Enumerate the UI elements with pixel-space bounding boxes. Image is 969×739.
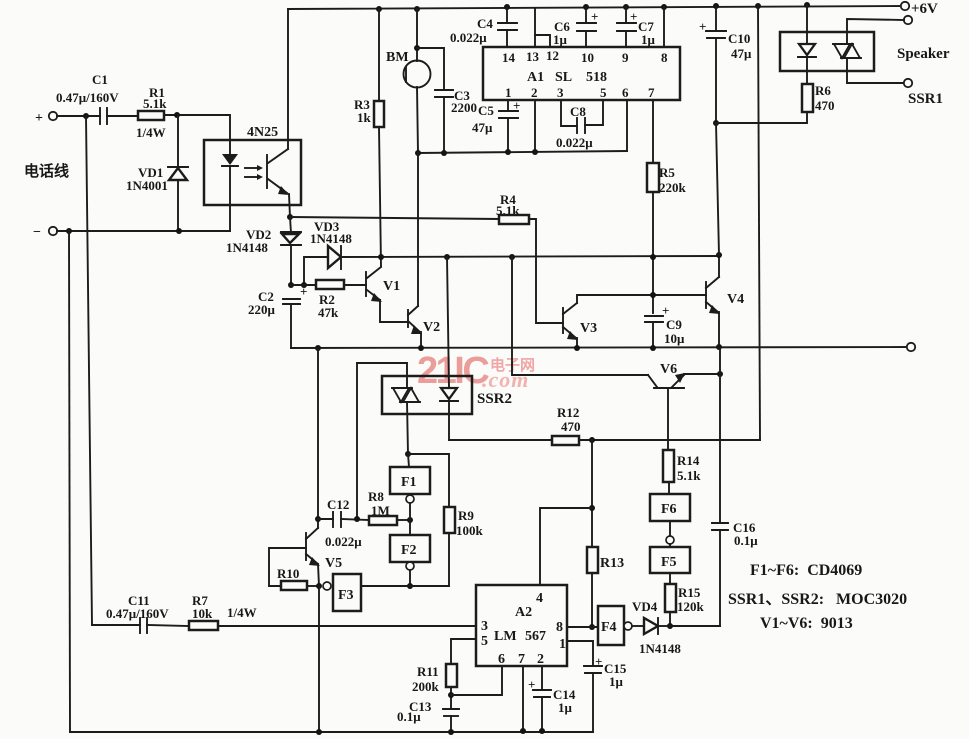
node rail C6 bbox=[583, 4, 589, 10]
node VD1 bottom bbox=[176, 228, 182, 234]
svg-text:220k: 220k bbox=[659, 180, 687, 195]
svg-text:1k: 1k bbox=[357, 110, 372, 125]
node rail V5 branch bbox=[315, 345, 321, 351]
node bottom rail C14 bbox=[539, 728, 545, 734]
svg-text:12: 12 bbox=[546, 48, 559, 63]
svg-text:5: 5 bbox=[481, 634, 488, 649]
svg-text:120k: 120k bbox=[677, 599, 705, 614]
wire SSR2 triac bottom to F1 node bbox=[407, 402, 408, 454]
svg-text:1N4148: 1N4148 bbox=[310, 231, 352, 246]
SSR1 LED bbox=[806, 5, 808, 44]
node V1 collector on VD3 line bbox=[378, 254, 384, 260]
svg-text:V6: V6 bbox=[660, 362, 677, 377]
op-amp U5 A2 LM567 box bbox=[476, 585, 567, 666]
gate F6 bbox=[650, 494, 690, 521]
gate F5 bbox=[669, 544, 671, 547]
resistor R15 120k bbox=[669, 573, 671, 584]
svg-text:5.1k: 5.1k bbox=[496, 203, 520, 218]
wire pin 6 down to mic rail bbox=[626, 100, 628, 151]
svg-text:4: 4 bbox=[536, 591, 543, 606]
svg-text:10: 10 bbox=[581, 50, 594, 65]
op-amp U1 4N25 optocoupler box bbox=[204, 140, 301, 205]
wire F3 node to bottom rail bbox=[318, 586, 320, 732]
wire pin 12 stub bbox=[535, 35, 550, 47]
node F4 output bubble bbox=[624, 622, 632, 630]
svg-text:0.1μ: 0.1μ bbox=[397, 709, 421, 724]
node VD3 line V6 base branch bbox=[509, 254, 515, 260]
node rail pin8 bbox=[661, 4, 667, 10]
wire pin 8 to F4 bbox=[567, 626, 598, 628]
svg-text:R8: R8 bbox=[368, 489, 384, 504]
wire R15 node to C16 bbox=[670, 625, 720, 627]
wire mic rail bbox=[418, 151, 627, 153]
diode VD1 1N4001 bbox=[177, 115, 179, 166]
svg-text:518: 518 bbox=[586, 70, 607, 85]
svg-text:21IC: 21IC bbox=[417, 350, 489, 392]
svg-text:.com: .com bbox=[482, 367, 529, 392]
wire pin 7 down to R5 bbox=[652, 100, 654, 163]
wire emitter down to VD2 node bbox=[289, 194, 290, 217]
svg-text:R11: R11 bbox=[417, 664, 439, 679]
4N25 LED bbox=[222, 154, 238, 165]
node VD4 R15 junction bbox=[667, 623, 673, 629]
node VD2 top junction bbox=[287, 214, 293, 220]
svg-text:1μ: 1μ bbox=[553, 32, 568, 47]
svg-text:5.1k: 5.1k bbox=[677, 468, 701, 483]
wire pin 8 to rail bbox=[663, 7, 665, 47]
node C2 top bbox=[288, 282, 294, 288]
resistor R7 10k 1/4W bbox=[147, 625, 189, 626]
transistor V6 bbox=[648, 375, 657, 387]
svg-text:1: 1 bbox=[505, 85, 512, 100]
node mic rail C3 bbox=[441, 150, 447, 156]
svg-text:电话线: 电话线 bbox=[24, 162, 69, 180]
svg-text:7: 7 bbox=[648, 85, 655, 100]
wire VD3 line to V4 collector bbox=[343, 256, 719, 257]
node F1 output bubble bbox=[406, 495, 414, 503]
svg-text:C5: C5 bbox=[478, 103, 494, 118]
resistor R13 bbox=[591, 440, 593, 547]
svg-text:1/4W: 1/4W bbox=[136, 125, 166, 140]
diode VD2 1N4148 bbox=[290, 217, 291, 233]
svg-text:A2: A2 bbox=[515, 605, 532, 620]
wire V4 emitter to rail bbox=[718, 312, 720, 347]
node F2 output bubble bbox=[406, 562, 414, 570]
capacitor C16 0.1u bbox=[712, 522, 728, 524]
svg-text:200k: 200k bbox=[412, 679, 440, 694]
SSR1 triac bbox=[834, 44, 850, 58]
svg-text:R5: R5 bbox=[659, 165, 675, 180]
wire V3 emitter to rail bbox=[576, 338, 578, 348]
wire V3 collector to V4 base bbox=[577, 295, 706, 303]
wire pin 13 to rail bbox=[534, 8, 536, 47]
svg-text:567: 567 bbox=[525, 629, 546, 644]
wire pin 7 down bbox=[522, 666, 524, 731]
gate F1 bbox=[408, 454, 409, 467]
node rail BM bbox=[414, 6, 420, 12]
transistor V4 bbox=[705, 282, 707, 308]
resistor R12 470 bbox=[552, 436, 579, 445]
svg-text:220μ: 220μ bbox=[248, 302, 276, 317]
svg-text:C12: C12 bbox=[327, 497, 349, 512]
svg-text:1μ: 1μ bbox=[558, 700, 573, 715]
svg-text:C9: C9 bbox=[666, 317, 682, 332]
node VD3 line SSR2 LED bbox=[444, 254, 450, 260]
svg-text:1N4148: 1N4148 bbox=[639, 641, 681, 656]
wire SSR2 LED to R12 bbox=[449, 439, 552, 441]
node F3 input bubble bbox=[323, 582, 331, 590]
wire - rail bbox=[57, 230, 230, 232]
svg-text:+: + bbox=[528, 677, 535, 692]
wire mid ground rail bbox=[291, 347, 911, 348]
svg-text:6: 6 bbox=[622, 85, 629, 100]
wire V4 collector to VD3 line bbox=[718, 255, 720, 277]
capacitor C5 47u bbox=[507, 100, 509, 111]
svg-text:C10: C10 bbox=[728, 31, 750, 46]
svg-text:0.1μ: 0.1μ bbox=[734, 533, 758, 548]
capacitor C12 0.022u bbox=[318, 518, 333, 520]
svg-text:R6: R6 bbox=[815, 83, 831, 98]
op-amp U3 SSR1 MOC3020 box bbox=[780, 32, 874, 71]
diode VD3 1N4148 bbox=[304, 257, 328, 285]
terminal + (phone line) bbox=[49, 112, 57, 120]
svg-text:5.1k: 5.1k bbox=[143, 96, 167, 111]
wire SSR2 left vertical bbox=[356, 363, 358, 519]
node V3 collector line bbox=[650, 292, 656, 298]
wire + terminal to C1 bbox=[57, 115, 100, 117]
node bottom rail pin7 bbox=[520, 728, 526, 734]
svg-text:SSR1: SSR1 bbox=[908, 91, 943, 107]
svg-text:47μ: 47μ bbox=[472, 120, 493, 135]
svg-text:1μ: 1μ bbox=[609, 674, 624, 689]
wire V6 emitter to C16 vertical bbox=[684, 373, 720, 375]
svg-text:0.47μ/160V: 0.47μ/160V bbox=[56, 90, 119, 105]
svg-text:LM: LM bbox=[494, 629, 517, 644]
node rail feed vertical bbox=[755, 3, 761, 9]
svg-text:5: 5 bbox=[600, 85, 607, 100]
wire +6V feed vertical to R12 line bbox=[758, 6, 760, 440]
capacitor C13 0.1u bbox=[443, 708, 459, 710]
node R12 line R13 bbox=[589, 437, 595, 443]
svg-text:6: 6 bbox=[498, 652, 505, 667]
resistor R11 200k bbox=[446, 664, 457, 687]
svg-text:SSR1、SSR2: MOC3020: SSR1、SSR2: MOC3020 bbox=[728, 591, 907, 608]
transistor 4N25 phototransistor bbox=[266, 155, 268, 188]
wire V2 collector to mic rail bbox=[417, 153, 419, 306]
svg-text:1N4001: 1N4001 bbox=[126, 178, 168, 193]
wire R4 to V3 base bbox=[529, 219, 563, 323]
resistor R4 5.1k bbox=[499, 215, 529, 224]
wire V1 emitter to V2 base bbox=[380, 300, 408, 322]
svg-text:SL: SL bbox=[555, 70, 572, 85]
svg-text:1M: 1M bbox=[371, 503, 390, 518]
svg-text:1N4148: 1N4148 bbox=[226, 240, 268, 255]
svg-text:+: + bbox=[630, 9, 637, 24]
svg-text:10k: 10k bbox=[192, 606, 213, 621]
svg-text:470: 470 bbox=[561, 419, 581, 434]
node pin4 junction bbox=[589, 505, 595, 511]
wire bottom ground rail bbox=[70, 731, 593, 733]
svg-text:1: 1 bbox=[559, 637, 566, 652]
svg-text:C4: C4 bbox=[477, 16, 493, 31]
svg-text:0.022μ: 0.022μ bbox=[450, 30, 487, 45]
svg-text:R10: R10 bbox=[277, 566, 299, 581]
svg-text:+: + bbox=[595, 654, 602, 669]
svg-text:8: 8 bbox=[556, 620, 563, 635]
wire pin 4 up to R13 bbox=[540, 508, 592, 585]
node VD3 line R5 bbox=[650, 254, 656, 260]
wire V5 collector vertical bbox=[317, 348, 319, 528]
node R8 F1 F2 junction bbox=[407, 517, 413, 523]
wire SSR2 triac top bracket bbox=[357, 363, 407, 388]
svg-text:47k: 47k bbox=[318, 305, 339, 320]
wire pin 2 down bbox=[534, 100, 536, 152]
svg-text:1μ: 1μ bbox=[641, 32, 656, 47]
SSR2 LED bbox=[447, 257, 449, 388]
node input junction bbox=[83, 113, 89, 119]
svg-text:8: 8 bbox=[661, 50, 668, 65]
op-amp U2 A1 SL518 box bbox=[483, 47, 680, 100]
node C12 SSR2 branch bbox=[354, 516, 360, 522]
wire speaker top to triac bbox=[847, 19, 904, 44]
wire C10 node to V4 collector node bbox=[716, 123, 719, 255]
svg-text:V5: V5 bbox=[325, 556, 342, 571]
svg-text:+: + bbox=[591, 9, 598, 24]
svg-text:R9: R9 bbox=[458, 508, 474, 523]
transistor V2 bbox=[407, 310, 409, 327]
svg-text:13: 13 bbox=[526, 49, 540, 64]
svg-text:F5: F5 bbox=[661, 555, 677, 570]
terminal output right bbox=[907, 343, 915, 351]
node R1 right junction bbox=[174, 112, 180, 118]
wire input coupling vertical to LM567 line bbox=[86, 116, 92, 625]
diode VD4 1N4148 bbox=[632, 625, 644, 627]
svg-text:F2: F2 bbox=[401, 543, 417, 558]
node mic rail C5 bbox=[505, 149, 511, 155]
capacitor C3 2200 bbox=[417, 48, 444, 90]
wire triac to SSR1 terminal bbox=[847, 58, 904, 83]
wire pin 5 to R11 bbox=[451, 639, 476, 664]
capacitor C9 10u bbox=[645, 315, 663, 317]
gate F4 bbox=[598, 606, 624, 645]
gate F3 bbox=[333, 574, 361, 611]
node rail C4 bbox=[504, 4, 510, 10]
node V6 emitter junction bbox=[717, 371, 723, 377]
svg-text:2200: 2200 bbox=[451, 100, 477, 115]
gate F2 bbox=[390, 535, 430, 562]
node R11 C13 pin6 bbox=[448, 692, 454, 698]
capacitor C10 47u bbox=[713, 3, 719, 9]
svg-text:F1~F6: CD4069: F1~F6: CD4069 bbox=[750, 562, 862, 579]
svg-text:SSR2: SSR2 bbox=[477, 391, 512, 407]
node rail V2 emitter bbox=[418, 345, 424, 351]
resistor R14 5.1k bbox=[663, 450, 674, 482]
wire R12 line to +6V feed bbox=[579, 439, 760, 441]
transistor V5 bbox=[305, 533, 307, 560]
svg-text:7: 7 bbox=[518, 652, 525, 667]
svg-text:C8: C8 bbox=[570, 104, 586, 119]
node rail C9 bbox=[650, 345, 656, 351]
svg-text:2: 2 bbox=[537, 652, 544, 667]
terminal +6V bbox=[901, 2, 909, 10]
microphone BM bbox=[416, 9, 418, 61]
wire C1 to R1 bbox=[107, 115, 138, 117]
node C10 R6 bbox=[713, 120, 719, 126]
terminal SSR1 bbox=[904, 79, 912, 87]
svg-text:3: 3 bbox=[481, 619, 488, 634]
resistor R9 100k bbox=[408, 454, 449, 507]
svg-text:F6: F6 bbox=[661, 502, 677, 517]
capacitor C11 0.47u/160V bbox=[92, 624, 140, 626]
capacitor C7 1u bbox=[625, 7, 627, 23]
svg-text:V4: V4 bbox=[727, 292, 744, 307]
capacitor C6 1u bbox=[585, 7, 587, 23]
wire V6 base branch bbox=[512, 257, 648, 375]
node C12 V5 collector bbox=[315, 516, 321, 522]
node VD3 line V4 bbox=[716, 252, 722, 258]
node - rail left bbox=[66, 228, 72, 234]
terminal speaker top bbox=[904, 16, 912, 24]
resistor R3 1k bbox=[378, 9, 380, 101]
node V5 emitter R10 F3 bbox=[316, 583, 322, 589]
svg-text:V2: V2 bbox=[423, 320, 440, 335]
wire collector to +6V rail bbox=[287, 9, 289, 149]
svg-text:14: 14 bbox=[502, 50, 516, 65]
capacitor C4 0.022u bbox=[506, 7, 508, 23]
svg-text:47μ: 47μ bbox=[731, 46, 752, 61]
SSR2 triac bbox=[393, 388, 409, 402]
wire V6 collector to R14 bbox=[667, 388, 669, 450]
resistor R5 220k bbox=[647, 163, 659, 192]
node mic rail pin2 bbox=[532, 149, 538, 155]
resistor R1 5.1k 1/4W bbox=[138, 111, 164, 120]
node rail V3 emitter bbox=[574, 345, 580, 351]
resistor R6 470 bbox=[802, 84, 813, 112]
node rail SSR1 bbox=[804, 2, 810, 8]
wire F3 output line bbox=[361, 585, 449, 587]
capacitor C15 1u on pin 1 bbox=[567, 641, 593, 666]
svg-text:1/4W: 1/4W bbox=[227, 605, 257, 620]
capacitor C8 0.022u between pins 3 and 5 bbox=[561, 100, 577, 126]
4N25 light arrows bbox=[245, 167, 257, 169]
node mic rail BM bbox=[415, 150, 421, 156]
capacitor C14 1u on pin 2 bbox=[541, 666, 543, 690]
svg-text:C1: C1 bbox=[92, 72, 108, 87]
wire R1 to 4N25 LED bbox=[164, 115, 230, 154]
svg-text:F1: F1 bbox=[401, 475, 417, 490]
wire VD2 node to R4 bbox=[290, 217, 499, 219]
resistor R10 bbox=[281, 581, 307, 590]
wire V2 emitter to rail bbox=[420, 332, 422, 348]
svg-text:0.47μ/160V: 0.47μ/160V bbox=[106, 606, 169, 621]
wire +6V top rail bbox=[288, 6, 905, 9]
svg-text:+: + bbox=[35, 111, 43, 126]
node rail R3 bbox=[376, 6, 382, 12]
node rail V4 emitter bbox=[716, 344, 722, 350]
svg-text:0.022μ: 0.022μ bbox=[325, 534, 362, 549]
svg-text:V1: V1 bbox=[383, 279, 400, 294]
capacitor C2 220u bbox=[283, 298, 300, 300]
svg-text:4N25: 4N25 bbox=[247, 125, 278, 140]
svg-text:R13: R13 bbox=[600, 556, 624, 571]
svg-text:−: − bbox=[33, 225, 41, 240]
node pin8 F4 junction bbox=[589, 624, 595, 630]
wire pin 6 to R11 node bbox=[451, 666, 502, 695]
node bottom rail C13 bbox=[448, 729, 454, 735]
wire left vertical to bottom rail bbox=[69, 231, 70, 732]
svg-text:R14: R14 bbox=[677, 453, 700, 468]
svg-text:R15: R15 bbox=[678, 585, 701, 600]
wire C16 vertical upper bbox=[719, 348, 721, 523]
wire F6 to bubble bbox=[669, 521, 671, 536]
resistor R8 1M bbox=[369, 516, 397, 525]
transistor V1 bbox=[365, 272, 367, 296]
op-amp U4 SSR2 MOC3020 box bbox=[382, 376, 472, 414]
transistor V3 bbox=[562, 308, 564, 333]
svg-text:F4: F4 bbox=[601, 620, 617, 635]
svg-text:+: + bbox=[699, 19, 706, 34]
svg-text:V1~V6: 9013: V1~V6: 9013 bbox=[760, 615, 853, 632]
svg-text:V3: V3 bbox=[580, 321, 597, 336]
node F2 output junction bbox=[407, 583, 413, 589]
svg-text:Speaker: Speaker bbox=[897, 46, 950, 62]
node bottom rail F3 bbox=[316, 729, 322, 735]
svg-text:0.022μ: 0.022μ bbox=[556, 135, 593, 150]
svg-text:3: 3 bbox=[557, 85, 564, 100]
svg-text:9: 9 bbox=[622, 50, 629, 65]
wire V5 emitter down bbox=[318, 564, 319, 586]
svg-text:VD4: VD4 bbox=[632, 599, 658, 614]
resistor R2 47k bbox=[291, 284, 316, 286]
svg-text:470: 470 bbox=[815, 98, 835, 113]
svg-text:R12: R12 bbox=[557, 405, 579, 420]
wire V5 base loop bbox=[269, 548, 306, 586]
svg-text:+6V: +6V bbox=[911, 1, 938, 17]
svg-text:A1: A1 bbox=[527, 70, 544, 85]
svg-text:+: + bbox=[662, 303, 669, 318]
node F6 output bubble bbox=[666, 536, 674, 544]
svg-text:+: + bbox=[513, 98, 520, 113]
terminal - (phone line) bbox=[49, 227, 57, 235]
svg-text:F3: F3 bbox=[338, 588, 354, 603]
svg-text:BM: BM bbox=[386, 50, 409, 65]
svg-text:100k: 100k bbox=[456, 523, 484, 538]
node SSR2 F1 junction bbox=[405, 451, 411, 457]
capacitor C1 bbox=[99, 108, 101, 124]
svg-text:2: 2 bbox=[531, 85, 538, 100]
node rail C7 bbox=[623, 4, 629, 10]
svg-text:10μ: 10μ bbox=[664, 331, 685, 346]
